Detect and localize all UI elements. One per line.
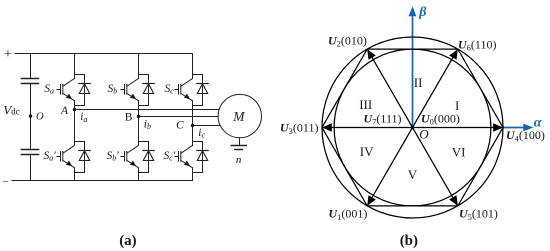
svg-text:−: − <box>3 176 9 188</box>
diode Dc prime branch wire <box>193 142 203 173</box>
svg-text:β: β <box>418 5 427 20</box>
diode Db prime branch wire <box>139 142 149 173</box>
wire leg C emitter down through node <box>192 101 194 146</box>
svg-text:U5(101): U5(101) <box>459 206 498 221</box>
diode Db <box>143 84 154 94</box>
label Sb <box>108 83 118 96</box>
svg-text:C: C <box>176 119 184 131</box>
wire leg B to bottom bus <box>138 168 140 181</box>
arrowhead U5 <box>449 195 458 206</box>
wire leg A emitter down through node <box>74 101 76 146</box>
inner circle (inscribed) <box>334 49 491 206</box>
svg-text:II: II <box>414 75 423 90</box>
label ib <box>144 118 151 131</box>
label ia <box>80 111 87 124</box>
arrowhead U1 <box>367 195 376 206</box>
wire leg B from top bus <box>138 54 140 79</box>
node minus terminal <box>3 176 9 188</box>
alpha axis arrowhead <box>523 124 533 132</box>
ground n <box>231 146 246 150</box>
wire top DC bus <box>15 53 193 55</box>
svg-text:Vdc: Vdc <box>3 102 19 117</box>
label ic <box>198 127 205 140</box>
svg-text:Sa′: Sa′ <box>44 150 57 163</box>
wire leg C from top bus <box>192 54 194 79</box>
svg-text:Sb′: Sb′ <box>107 150 120 163</box>
diode Dc prime <box>197 151 208 161</box>
svg-text:O: O <box>419 127 429 142</box>
wire phase C to motor <box>193 125 223 127</box>
outer circle (circumscribed) <box>322 37 503 218</box>
label O <box>36 112 44 123</box>
wire phase A to motor <box>75 109 223 111</box>
svg-text:(b): (b) <box>400 233 418 249</box>
arrowhead U2 <box>367 49 376 60</box>
svg-text:I: I <box>455 98 459 113</box>
node O junction dot <box>29 114 32 117</box>
label Sa <box>44 83 54 96</box>
label Vdc <box>3 102 19 117</box>
diode Da prime <box>79 151 90 161</box>
node O center dot <box>411 126 415 130</box>
arrowhead U6 <box>449 49 458 60</box>
svg-text:B: B <box>125 111 133 123</box>
vector line U3-U4 <box>322 127 503 129</box>
wire leg C to bottom bus <box>192 168 194 181</box>
diode Db branch wire <box>139 75 149 106</box>
svg-text:III: III <box>359 97 372 112</box>
diode Da prime branch wire <box>75 142 85 173</box>
node A junction dot <box>73 108 76 111</box>
svg-text:U6(110): U6(110) <box>458 37 496 52</box>
svg-text:U2(010): U2(010) <box>328 33 367 48</box>
node B junction dot <box>137 115 140 118</box>
arrowhead U4 <box>493 123 503 131</box>
diode Dc <box>197 84 208 94</box>
wire phase B to motor <box>139 116 223 118</box>
vector line U1-U6 <box>367 49 458 206</box>
transistor Sb prime (IGBT) <box>121 146 139 168</box>
wire leg B emitter down through node <box>138 101 140 146</box>
capacitor C2 <box>22 150 39 155</box>
label Sb prime <box>107 150 120 163</box>
label node B <box>125 111 133 123</box>
wire below capacitor C2 <box>30 155 32 181</box>
diode Da <box>79 84 90 94</box>
svg-text:ib: ib <box>144 118 151 131</box>
transistor Sc prime (IGBT) <box>175 146 193 168</box>
label n <box>236 154 242 166</box>
wire bottom DC bus <box>12 180 193 182</box>
node plus terminal <box>4 47 12 62</box>
wire between capacitors <box>30 84 32 150</box>
label Sc prime <box>164 150 176 163</box>
svg-text:V: V <box>408 167 418 182</box>
svg-text:U0(000): U0(000) <box>421 111 460 126</box>
motor M <box>218 94 261 137</box>
svg-text:n: n <box>236 154 242 166</box>
svg-text:U7(111): U7(111) <box>364 111 402 126</box>
arrowhead U3 <box>322 123 332 131</box>
svg-text:M: M <box>232 109 245 124</box>
node C junction dot <box>191 124 194 127</box>
diode Db prime <box>143 151 154 161</box>
label node C <box>176 119 184 131</box>
svg-text:ic: ic <box>198 127 205 140</box>
svg-text:O: O <box>36 112 44 123</box>
wire leg A from top bus <box>74 54 76 79</box>
svg-text:+: + <box>4 47 12 62</box>
diode Da branch wire <box>75 75 85 106</box>
transistor Sc (IGBT) <box>175 79 193 101</box>
svg-text:U3(011): U3(011) <box>280 121 318 136</box>
label node A <box>60 105 69 117</box>
svg-text:Sc′: Sc′ <box>164 150 176 163</box>
diode Dc branch wire <box>193 75 203 106</box>
label Sc <box>165 83 175 96</box>
svg-text:VI: VI <box>452 145 466 160</box>
transistor Sb (IGBT) <box>121 79 139 101</box>
svg-text:Sc: Sc <box>165 83 175 96</box>
svg-text:(a): (a) <box>119 233 137 249</box>
wire left branch above C1 <box>30 54 32 79</box>
svg-text:A: A <box>60 105 69 117</box>
alpha axis <box>503 127 525 129</box>
transistor Sa (IGBT) <box>57 79 75 101</box>
svg-text:U1(001): U1(001) <box>329 206 368 221</box>
svg-text:Sa: Sa <box>44 83 54 96</box>
capacitor C1 <box>22 79 39 84</box>
wire leg A to bottom bus <box>74 168 76 181</box>
vector line U2-U5 <box>367 49 458 206</box>
hexagon <box>322 49 503 206</box>
beta axis arrowhead <box>409 6 417 16</box>
svg-text:Sb: Sb <box>108 83 118 96</box>
beta axis <box>412 16 414 128</box>
wire motor to ground <box>239 138 241 146</box>
label Sa prime <box>44 150 57 163</box>
svg-text:U4(100): U4(100) <box>506 128 545 143</box>
transistor Sa prime (IGBT) <box>57 146 75 168</box>
svg-text:IV: IV <box>360 144 374 159</box>
svg-text:ia: ia <box>80 111 87 124</box>
